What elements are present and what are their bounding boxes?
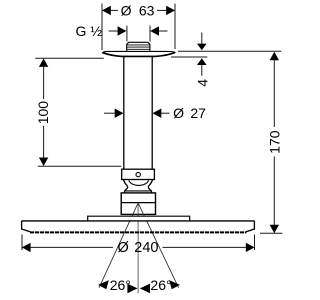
svg-text:26°: 26°: [150, 277, 171, 293]
dimension 100 arrow up: [39, 58, 48, 67]
ball joint lip line: [124, 190, 152, 192]
svg-text:Ø 63: Ø 63: [121, 2, 155, 18]
dimension 170 stem top: [273, 60, 275, 128]
reference line flange bottom (for 4 dim): [171, 56, 207, 58]
reference line flange top (to 170 dim): [178, 50, 281, 52]
svg-text:170: 170: [267, 130, 283, 154]
dimension 170 arrow down: [270, 225, 279, 234]
thread line 1: [127, 44, 150, 46]
dimension 4 stem bottom: [201, 65, 203, 76]
reference line flange underside left (for 100 dim): [35, 57, 104, 59]
dimension Ø27 arrow left (points right): [104, 112, 115, 114]
svg-text:Ø 240: Ø 240: [118, 240, 159, 256]
shower plate right edge: [246, 221, 254, 232]
dimension 170 stem bottom: [273, 157, 275, 226]
ball joint left side: [124, 180, 128, 193]
collar screw hole: [136, 172, 140, 176]
pipe right edge: [151, 57, 153, 169]
dimension Ø63 extension line right: [174, 4, 176, 50]
spray cone left line: [99, 203, 138, 288]
dimension 4 stem top: [201, 33, 203, 45]
G1/2 extension tick left: [126, 26, 128, 42]
svg-text:100: 100: [35, 101, 51, 125]
spray angle arrow on left line: [98, 280, 109, 289]
G1/2 extension tick right: [149, 26, 151, 42]
reference line plate bottom right (for 170 dim): [260, 232, 282, 234]
dimension Ø27 arrow right (points left): [153, 109, 162, 118]
ceiling flange (saucer): [103, 51, 175, 56]
svg-text:4: 4: [194, 79, 210, 87]
dimension 100 stem top: [43, 66, 45, 99]
ball arc: [129, 180, 149, 185]
spray center line: [137, 203, 139, 293]
shower plate nozzle face (bold dashed): [30, 231, 246, 233]
dimension Ø240 extension line left: [21, 235, 23, 251]
threaded stub: [127, 42, 150, 51]
pipe left edge: [123, 57, 125, 169]
spray angle center arrow from right: [140, 284, 150, 294]
step disc: [88, 216, 190, 221]
ball-joint collar: [122, 169, 155, 179]
thread line 2: [127, 46, 150, 48]
dimension Ø63 extension line left: [101, 4, 103, 51]
G1/2 leader arrow right (points left): [150, 26, 159, 35]
flange bottom bold edge: [103, 53, 175, 57]
spray angle arrow on right line: [169, 280, 180, 289]
dimension Ø63 arrow right: [166, 6, 175, 15]
lower nut: [121, 193, 155, 215]
dimension Ø240 extension line right: [254, 235, 256, 251]
dimension 100 stem bottom: [43, 126, 45, 159]
dimension 170 arrow up: [270, 52, 279, 61]
nut divider line: [121, 202, 155, 204]
dimension 4 arrow down: [197, 44, 207, 51]
reference line collar top (for 100 dim): [38, 165, 122, 167]
shower plate left edge: [22, 221, 31, 232]
svg-text:G ½: G ½: [76, 23, 103, 39]
ball joint right side: [148, 180, 152, 193]
svg-text:Ø 27: Ø 27: [173, 105, 206, 121]
shower plate top: [22, 220, 255, 222]
dimension Ø240 arrow right: [246, 243, 255, 252]
G1/2 leader arrow left (points right): [109, 30, 119, 32]
dimension 4 arrow up: [197, 58, 207, 65]
dimension Ø240 arrow left: [22, 243, 31, 252]
thread line 3: [127, 48, 150, 50]
spray angle center arrow from left: [127, 284, 137, 294]
dimension Ø63 arrow left: [102, 6, 111, 15]
dimension 100 arrow down: [39, 158, 48, 167]
spray cone right line: [138, 203, 179, 288]
